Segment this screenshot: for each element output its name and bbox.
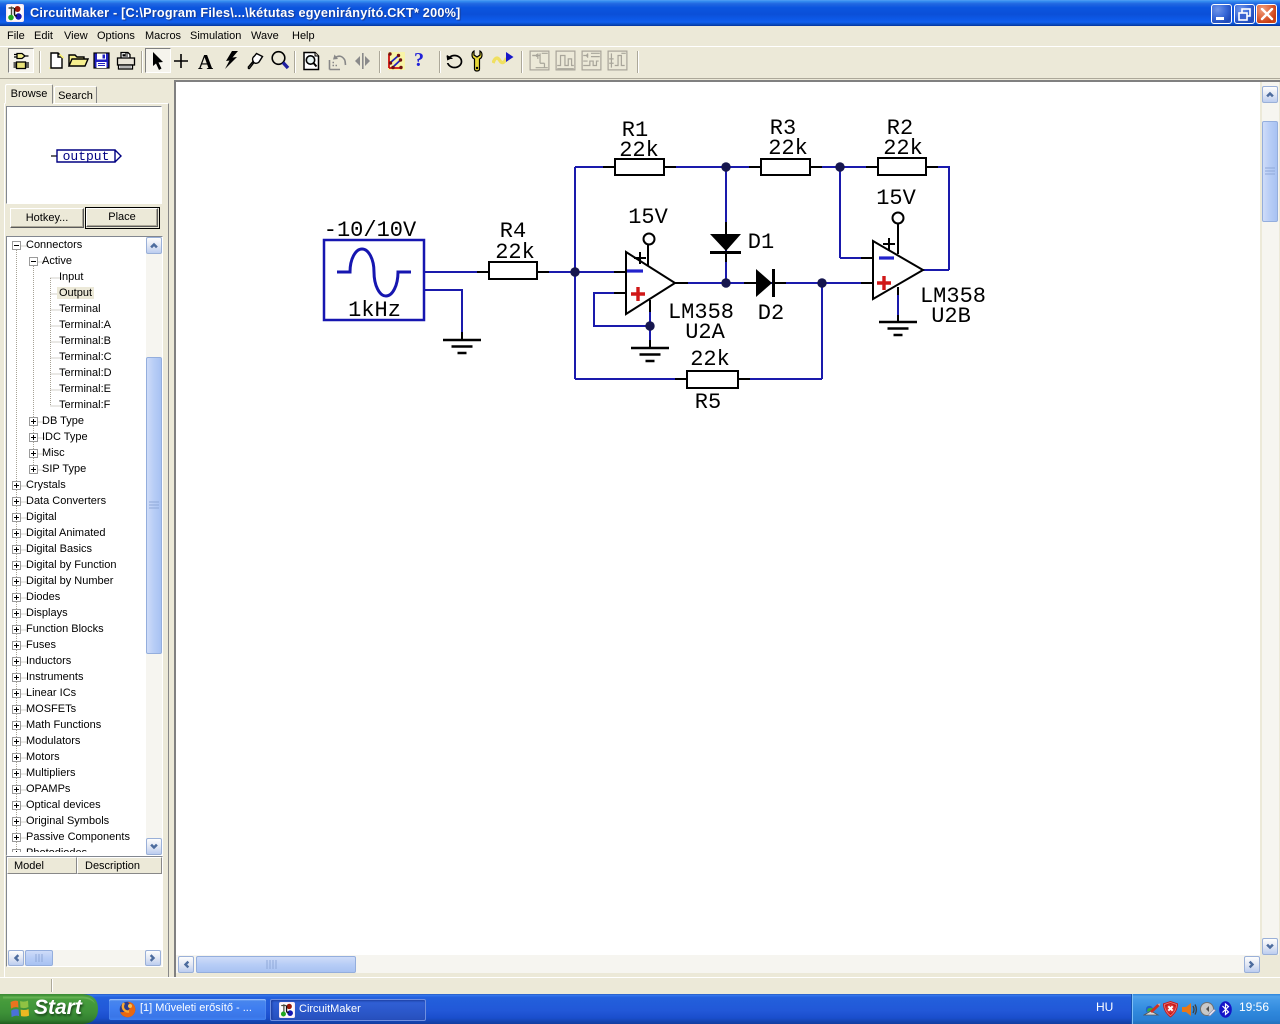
svg-text:1kHz: 1kHz	[348, 298, 401, 323]
svg-text:22k: 22k	[690, 347, 730, 372]
svg-text:22k: 22k	[883, 136, 923, 161]
svg-text:D1: D1	[748, 230, 774, 255]
svg-text:D2: D2	[758, 301, 784, 326]
svg-text:15V: 15V	[628, 205, 668, 230]
svg-text:15V: 15V	[876, 186, 916, 211]
svg-text:-10/10V: -10/10V	[324, 218, 417, 243]
svg-text:22k: 22k	[768, 136, 808, 161]
svg-text:output: output	[63, 149, 110, 164]
svg-text:22k: 22k	[619, 138, 659, 163]
svg-text:U2B: U2B	[931, 304, 971, 329]
svg-text:R5: R5	[695, 390, 721, 415]
svg-text:22k: 22k	[495, 240, 535, 265]
svg-text:U2A: U2A	[685, 320, 725, 345]
